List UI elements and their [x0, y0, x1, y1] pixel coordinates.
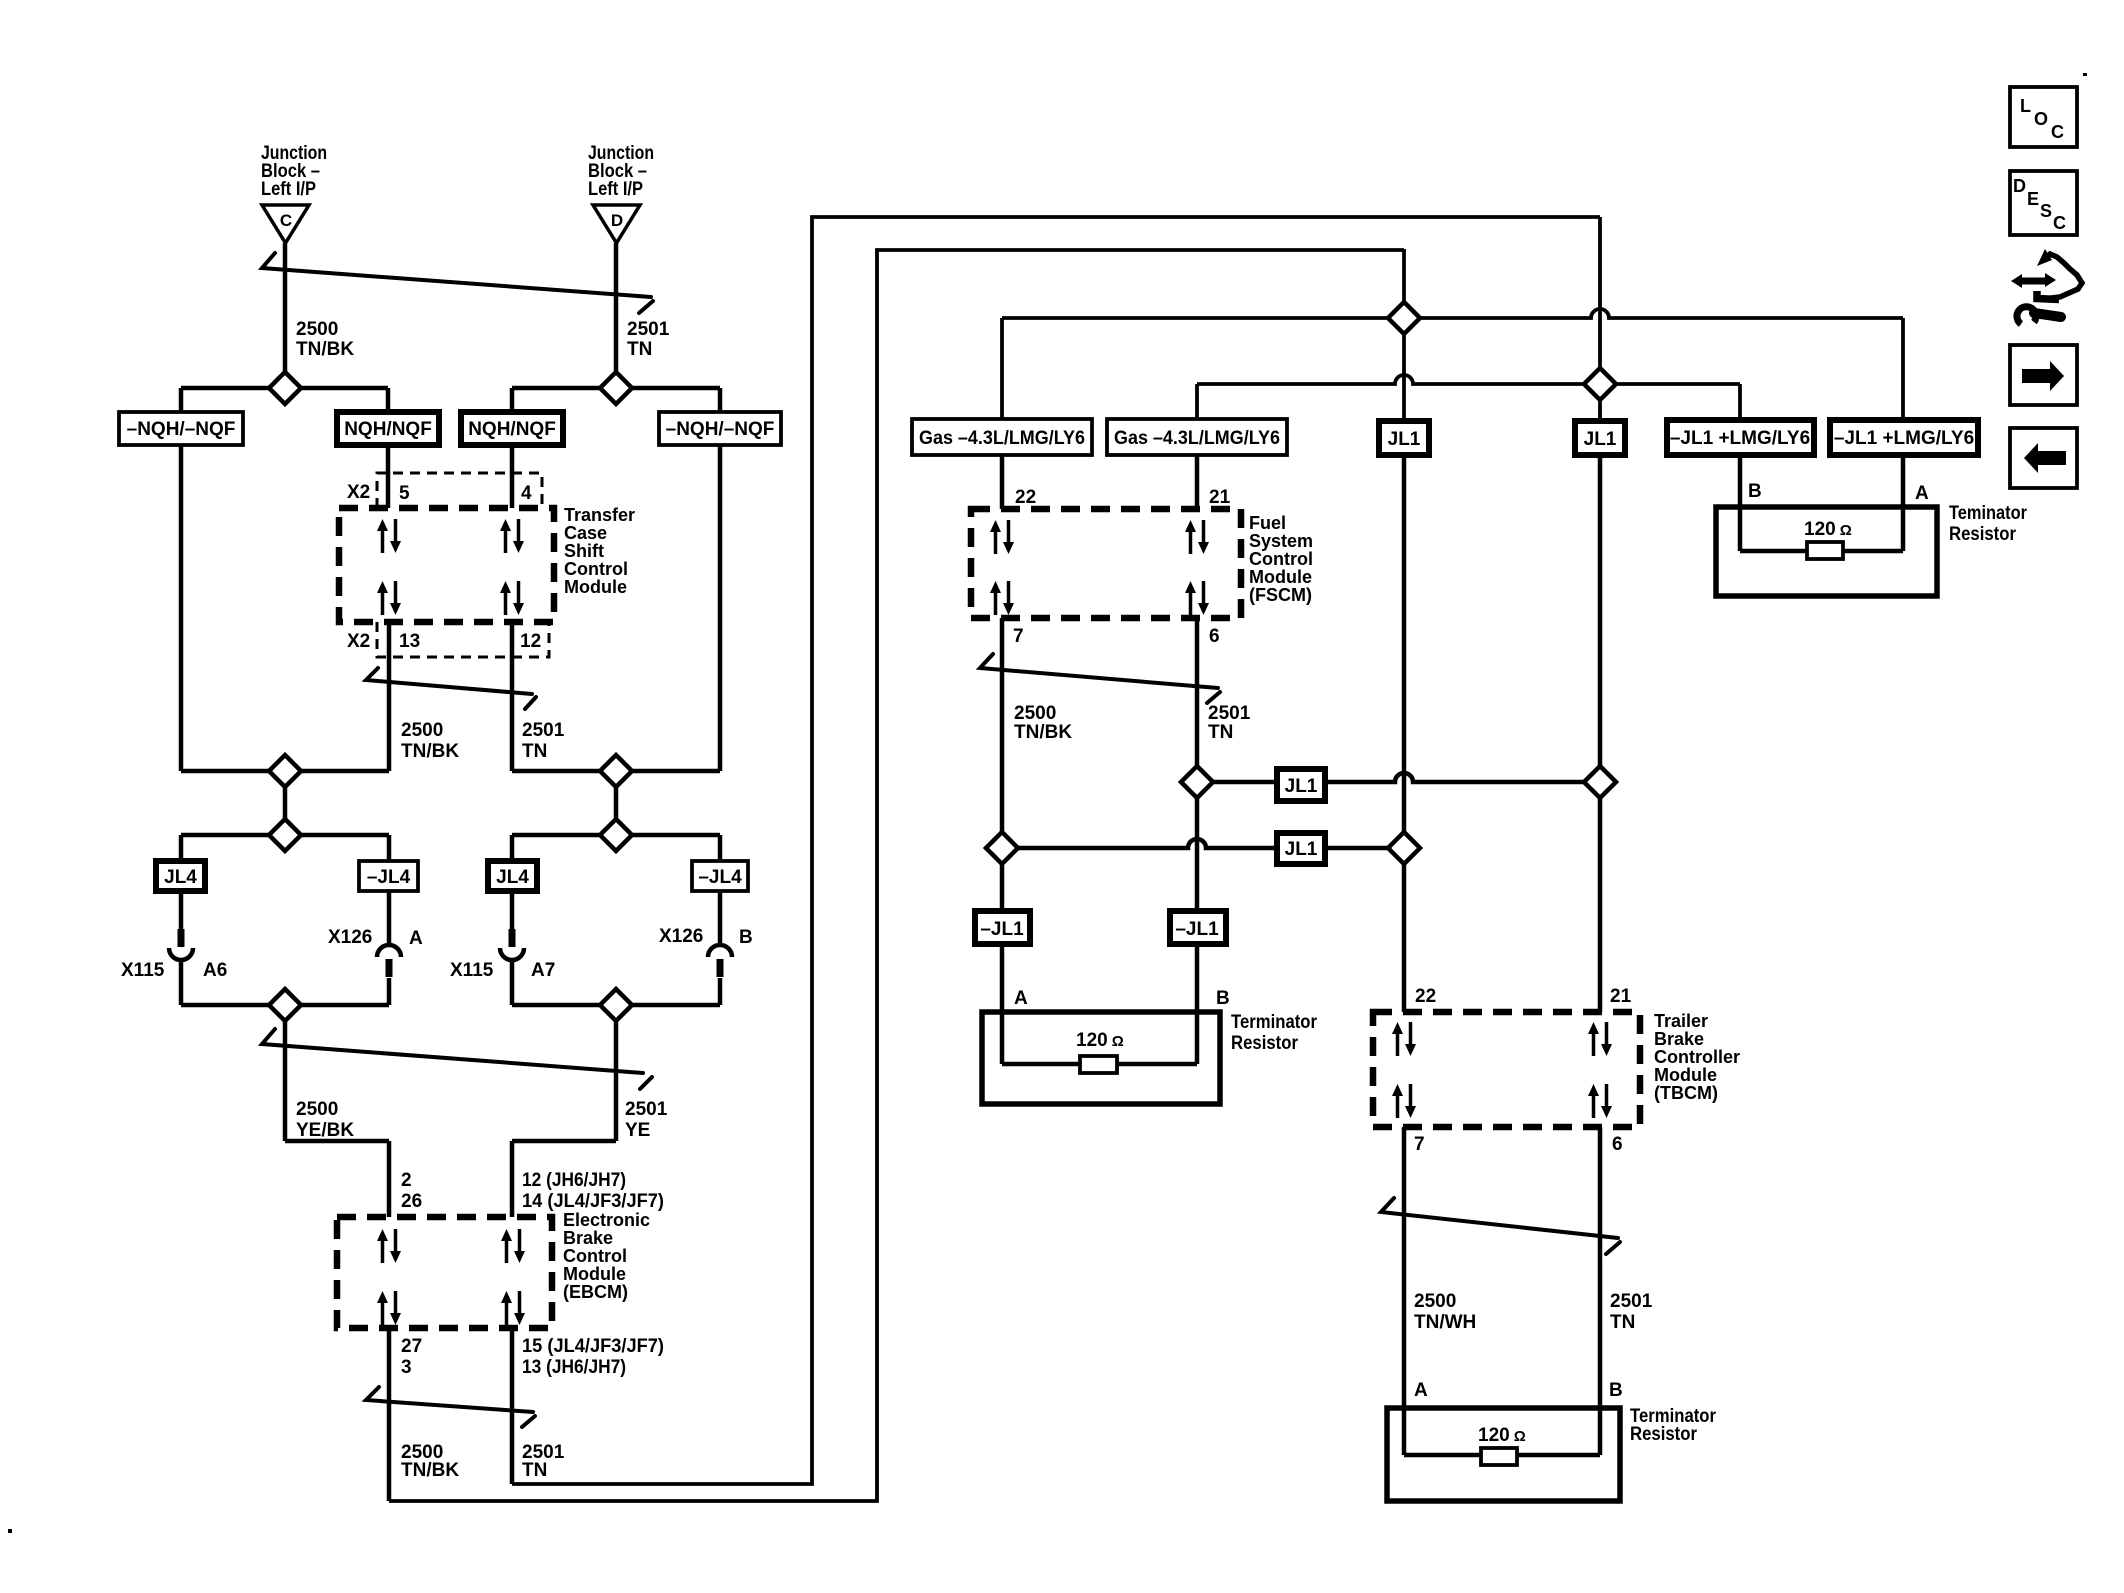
svg-text:Module: Module: [1654, 1065, 1717, 1085]
svg-text:26: 26: [401, 1191, 422, 1212]
svg-text:X2: X2: [347, 482, 370, 503]
svg-text:Transfer: Transfer: [564, 505, 635, 525]
svg-text:120Ω: 120Ω: [1076, 1030, 1124, 1051]
svg-text:JL1: JL1: [1388, 429, 1421, 450]
svg-text:Left I/P: Left I/P: [588, 179, 643, 200]
svg-text:TN/BK: TN/BK: [401, 1460, 459, 1481]
svg-text:L: L: [2020, 96, 2031, 116]
svg-text:YE/BK: YE/BK: [296, 1120, 354, 1141]
svg-text:–JL1 +LMG/LY6: –JL1 +LMG/LY6: [1834, 428, 1974, 449]
svg-text:2501: 2501: [625, 1099, 668, 1120]
svg-text:C: C: [280, 211, 292, 230]
svg-text:12 (JH6/JH7): 12 (JH6/JH7): [522, 1170, 626, 1191]
svg-text:A: A: [1014, 988, 1028, 1009]
svg-text:Case: Case: [564, 523, 607, 543]
svg-text:Gas –4.3L/LMG/LY6: Gas –4.3L/LMG/LY6: [1114, 428, 1280, 449]
svg-text:12: 12: [520, 631, 541, 652]
svg-text:21: 21: [1610, 986, 1632, 1007]
svg-text:JL4: JL4: [496, 867, 529, 888]
svg-text:2500: 2500: [1014, 703, 1056, 724]
svg-text:–NQH/–NQF: –NQH/–NQF: [666, 419, 775, 440]
svg-text:2501: 2501: [1208, 703, 1251, 724]
svg-text:13: 13: [399, 631, 420, 652]
svg-text:B: B: [1748, 481, 1762, 502]
svg-text:JL1: JL1: [1584, 429, 1617, 450]
svg-text:TN/BK: TN/BK: [1014, 722, 1072, 743]
svg-text:Left I/P: Left I/P: [261, 179, 316, 200]
svg-text:2501: 2501: [627, 319, 670, 340]
svg-text:2500: 2500: [296, 319, 338, 340]
svg-text:Resistor: Resistor: [1630, 1424, 1698, 1445]
svg-text:A: A: [1414, 1380, 1428, 1401]
svg-text:Trailer: Trailer: [1654, 1011, 1708, 1031]
svg-text:6: 6: [1209, 626, 1220, 647]
svg-text:C: C: [2051, 122, 2064, 142]
svg-text:Electronic: Electronic: [563, 1210, 650, 1230]
svg-text:27: 27: [401, 1336, 422, 1357]
svg-text:Shift: Shift: [564, 541, 604, 561]
svg-text:14 (JL4/JF3/JF7): 14 (JL4/JF3/JF7): [522, 1191, 664, 1212]
svg-text:2501: 2501: [1610, 1291, 1653, 1312]
svg-text:TN: TN: [627, 339, 652, 360]
svg-text:O: O: [2034, 109, 2048, 129]
svg-text:2500: 2500: [296, 1099, 338, 1120]
svg-text:Terminator: Terminator: [1231, 1012, 1318, 1033]
svg-text:2501: 2501: [522, 720, 565, 741]
svg-text:TN/BK: TN/BK: [401, 741, 459, 762]
svg-text:2500: 2500: [401, 720, 443, 741]
svg-text:A6: A6: [203, 960, 227, 981]
svg-text:B: B: [1609, 1380, 1623, 1401]
svg-text:–JL1 +LMG/LY6: –JL1 +LMG/LY6: [1670, 428, 1810, 449]
svg-text:7: 7: [1013, 626, 1024, 647]
svg-text:5: 5: [399, 483, 410, 504]
svg-text:B: B: [739, 927, 753, 948]
svg-text:X126: X126: [659, 926, 703, 947]
svg-text:D: D: [2013, 176, 2026, 196]
svg-text:Brake: Brake: [563, 1228, 613, 1248]
svg-text:Control: Control: [1249, 549, 1313, 569]
svg-text:21: 21: [1209, 487, 1231, 508]
svg-text:NQH/NQF: NQH/NQF: [468, 419, 556, 440]
svg-text:NQH/NQF: NQH/NQF: [344, 419, 432, 440]
svg-text:Control: Control: [564, 559, 628, 579]
svg-text:System: System: [1249, 531, 1313, 551]
svg-text:7: 7: [1414, 1134, 1425, 1155]
svg-text:X115: X115: [450, 960, 494, 981]
svg-text:(EBCM): (EBCM): [563, 1282, 628, 1302]
svg-text:Gas –4.3L/LMG/LY6: Gas –4.3L/LMG/LY6: [919, 428, 1085, 449]
svg-text:A: A: [409, 928, 423, 949]
svg-text:TN/BK: TN/BK: [296, 339, 354, 360]
svg-text:Control: Control: [563, 1246, 627, 1266]
svg-text:TN: TN: [1208, 722, 1233, 743]
svg-text:TN: TN: [522, 741, 547, 762]
svg-text:2500: 2500: [1414, 1291, 1456, 1312]
svg-text:6: 6: [1612, 1134, 1623, 1155]
svg-text:YE: YE: [625, 1120, 650, 1141]
svg-text:15 (JL4/JF3/JF7): 15 (JL4/JF3/JF7): [522, 1336, 664, 1357]
svg-text:(FSCM): (FSCM): [1249, 585, 1312, 605]
svg-text:X115: X115: [121, 960, 165, 981]
svg-text:Module: Module: [564, 577, 627, 597]
svg-text:3: 3: [401, 1357, 412, 1378]
svg-text:Brake: Brake: [1654, 1029, 1704, 1049]
svg-text:D: D: [611, 211, 623, 230]
svg-text:X2: X2: [347, 631, 370, 652]
svg-text:E: E: [2027, 189, 2039, 209]
svg-text:A: A: [1915, 483, 1929, 504]
svg-text:TN: TN: [522, 1460, 547, 1481]
svg-text:–JL1: –JL1: [980, 919, 1024, 940]
svg-text:2: 2: [401, 1170, 412, 1191]
svg-text:(TBCM): (TBCM): [1654, 1083, 1718, 1103]
svg-text:120Ω: 120Ω: [1478, 1425, 1526, 1446]
svg-text:X126: X126: [328, 927, 372, 948]
svg-text:JL1: JL1: [1285, 776, 1318, 797]
svg-text:4: 4: [521, 483, 532, 504]
svg-text:JL1: JL1: [1285, 839, 1318, 860]
svg-text:Module: Module: [563, 1264, 626, 1284]
svg-text:13 (JH6/JH7): 13 (JH6/JH7): [522, 1357, 626, 1378]
svg-text:C: C: [2053, 213, 2066, 233]
svg-text:Resistor: Resistor: [1231, 1033, 1299, 1054]
svg-text:Resistor: Resistor: [1949, 524, 2017, 545]
svg-text:S: S: [2040, 201, 2052, 221]
svg-text:120Ω: 120Ω: [1804, 519, 1852, 540]
svg-text:Teminator: Teminator: [1949, 503, 2028, 524]
svg-text:22: 22: [1015, 487, 1036, 508]
svg-text:Controller: Controller: [1654, 1047, 1740, 1067]
svg-text:TN/WH: TN/WH: [1414, 1312, 1476, 1333]
svg-text:22: 22: [1415, 986, 1436, 1007]
svg-text:B: B: [1216, 988, 1230, 1009]
svg-text:Fuel: Fuel: [1249, 513, 1286, 533]
svg-text:Module: Module: [1249, 567, 1312, 587]
svg-text:TN: TN: [1610, 1312, 1635, 1333]
svg-text:–JL4: –JL4: [698, 867, 742, 888]
svg-text:JL4: JL4: [164, 867, 197, 888]
svg-text:–JL4: –JL4: [367, 867, 411, 888]
svg-text:–NQH/–NQF: –NQH/–NQF: [127, 419, 236, 440]
svg-text:A7: A7: [531, 960, 555, 981]
svg-text:–JL1: –JL1: [1175, 919, 1219, 940]
